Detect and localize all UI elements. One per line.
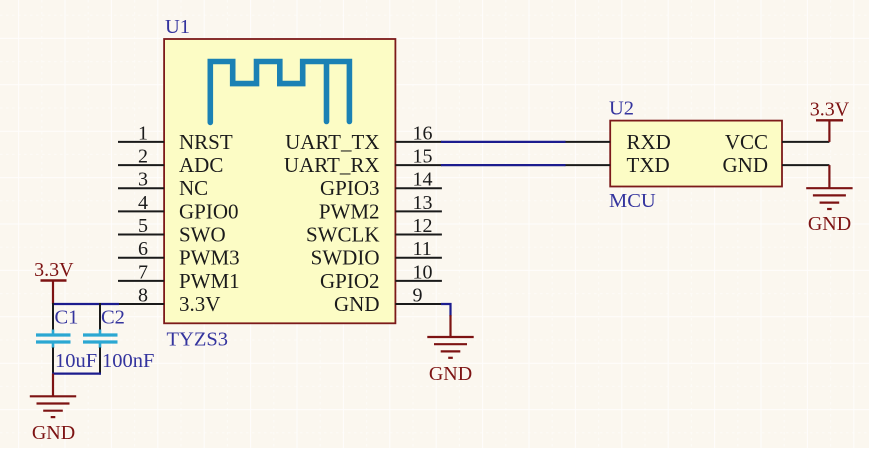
- svg-text:1: 1: [138, 122, 148, 144]
- wire 3.3V rail to U1 pin8: [53, 303, 119, 305]
- U1 pin 15 UART_RX: [284, 146, 442, 178]
- svg-text:GPIO3: GPIO3: [320, 176, 380, 200]
- svg-text:16: 16: [413, 122, 433, 144]
- svg-text:GPIO2: GPIO2: [320, 269, 380, 293]
- U1 pin 7 PWM1: [118, 261, 240, 293]
- wire C1 bottom lead: [52, 348, 54, 375]
- svg-text:3: 3: [138, 169, 148, 191]
- capacitor C2: [83, 307, 154, 373]
- U1 pin 13 PWM2: [319, 192, 442, 224]
- U1 pin 10 GPIO2: [320, 261, 442, 293]
- svg-text:C1: C1: [55, 307, 79, 329]
- svg-text:GND: GND: [429, 363, 472, 385]
- U1 pin 11 SWDIO: [311, 238, 442, 270]
- svg-text:PWM2: PWM2: [319, 199, 380, 223]
- U2 pin TXD: [565, 153, 670, 177]
- svg-text:U2: U2: [609, 98, 634, 120]
- svg-text:C2: C2: [101, 307, 125, 329]
- wire C2 top lead: [99, 303, 101, 331]
- U1 pin 14 GPIO3: [320, 169, 442, 201]
- svg-text:10uF: 10uF: [55, 350, 97, 372]
- wire net UART_RX (U1 pin15 to U2 TXD): [441, 164, 566, 166]
- U2 pin GND: [723, 153, 830, 177]
- svg-text:SWCLK: SWCLK: [306, 223, 380, 247]
- svg-text:PWM3: PWM3: [179, 246, 240, 270]
- svg-text:GND: GND: [32, 422, 75, 444]
- svg-text:3.3V: 3.3V: [179, 292, 220, 316]
- power 3.3V (right, U2 VCC): [810, 99, 850, 142]
- U1 pin 1 NRST: [118, 122, 233, 154]
- wire C1 top lead: [52, 303, 54, 331]
- svg-text:SWO: SWO: [179, 223, 226, 247]
- wire U1 pin9 to ground: [441, 304, 451, 316]
- svg-text:13: 13: [413, 192, 433, 214]
- U1 pin 8 3.3V: [118, 284, 220, 316]
- ground stub (left): [52, 374, 54, 397]
- ground stub (middle): [449, 315, 451, 337]
- svg-text:5: 5: [138, 215, 148, 237]
- svg-text:GND: GND: [334, 292, 380, 316]
- svg-text:7: 7: [138, 261, 148, 283]
- U1 pin 9 GND: [334, 284, 442, 316]
- svg-text:11: 11: [413, 238, 432, 260]
- U1 antenna symbol (PCB meander antenna): [210, 62, 349, 123]
- svg-text:MCU: MCU: [609, 190, 656, 212]
- U1 pin 16 UART_TX: [285, 122, 442, 154]
- svg-text:U1: U1: [165, 16, 190, 38]
- svg-text:GPIO0: GPIO0: [179, 199, 239, 223]
- svg-text:TYZS3: TYZS3: [167, 329, 229, 351]
- wire net UART_TX (U1 pin16 to U2 RXD): [441, 141, 566, 143]
- svg-text:9: 9: [413, 284, 423, 306]
- svg-text:SWDIO: SWDIO: [311, 246, 380, 270]
- U1 pin 4 GPIO0: [118, 192, 239, 224]
- ground GND (right): [806, 188, 852, 209]
- wire C2 bottom lead: [99, 348, 101, 375]
- ground GND (middle, U1 pin9): [427, 337, 473, 358]
- svg-text:6: 6: [138, 238, 148, 260]
- svg-text:2: 2: [138, 146, 148, 168]
- U1 pin 6 PWM3: [118, 238, 240, 270]
- svg-text:ADC: ADC: [179, 153, 223, 177]
- svg-text:12: 12: [413, 215, 433, 237]
- svg-text:RXD: RXD: [627, 130, 671, 154]
- svg-text:NC: NC: [179, 176, 208, 200]
- svg-text:NRST: NRST: [179, 130, 233, 154]
- ground GND (left): [30, 396, 76, 417]
- svg-text:4: 4: [138, 192, 148, 214]
- U1 pin 3 NC: [118, 169, 208, 201]
- power 3.3V (left, decoupling rail): [34, 259, 74, 304]
- svg-text:14: 14: [413, 169, 433, 191]
- U2 pin RXD: [565, 130, 671, 154]
- U1 pin 2 ADC: [118, 146, 223, 178]
- svg-text:8: 8: [138, 284, 148, 306]
- ground stub (right, U2 GND): [828, 165, 830, 188]
- U2 pin VCC: [725, 130, 830, 154]
- U1 pin 12 SWCLK: [306, 215, 442, 247]
- svg-text:VCC: VCC: [725, 130, 768, 154]
- capacitor C1: [36, 307, 97, 373]
- svg-text:10: 10: [413, 261, 433, 283]
- svg-text:PWM1: PWM1: [179, 269, 240, 293]
- svg-text:TXD: TXD: [627, 153, 670, 177]
- IC U1 body (TYZS3 module): [164, 39, 395, 323]
- svg-text:GND: GND: [808, 213, 851, 235]
- svg-text:UART_RX: UART_RX: [284, 153, 380, 177]
- U1 pin 5 SWO: [118, 215, 226, 247]
- svg-text:GND: GND: [723, 153, 769, 177]
- svg-text:UART_TX: UART_TX: [285, 130, 379, 154]
- svg-text:3.3V: 3.3V: [34, 259, 74, 281]
- svg-text:100nF: 100nF: [102, 350, 154, 372]
- svg-text:15: 15: [413, 146, 433, 168]
- wire cap bottoms join: [52, 373, 101, 375]
- svg-text:3.3V: 3.3V: [810, 99, 850, 121]
- IC U2 body (MCU): [610, 121, 782, 187]
